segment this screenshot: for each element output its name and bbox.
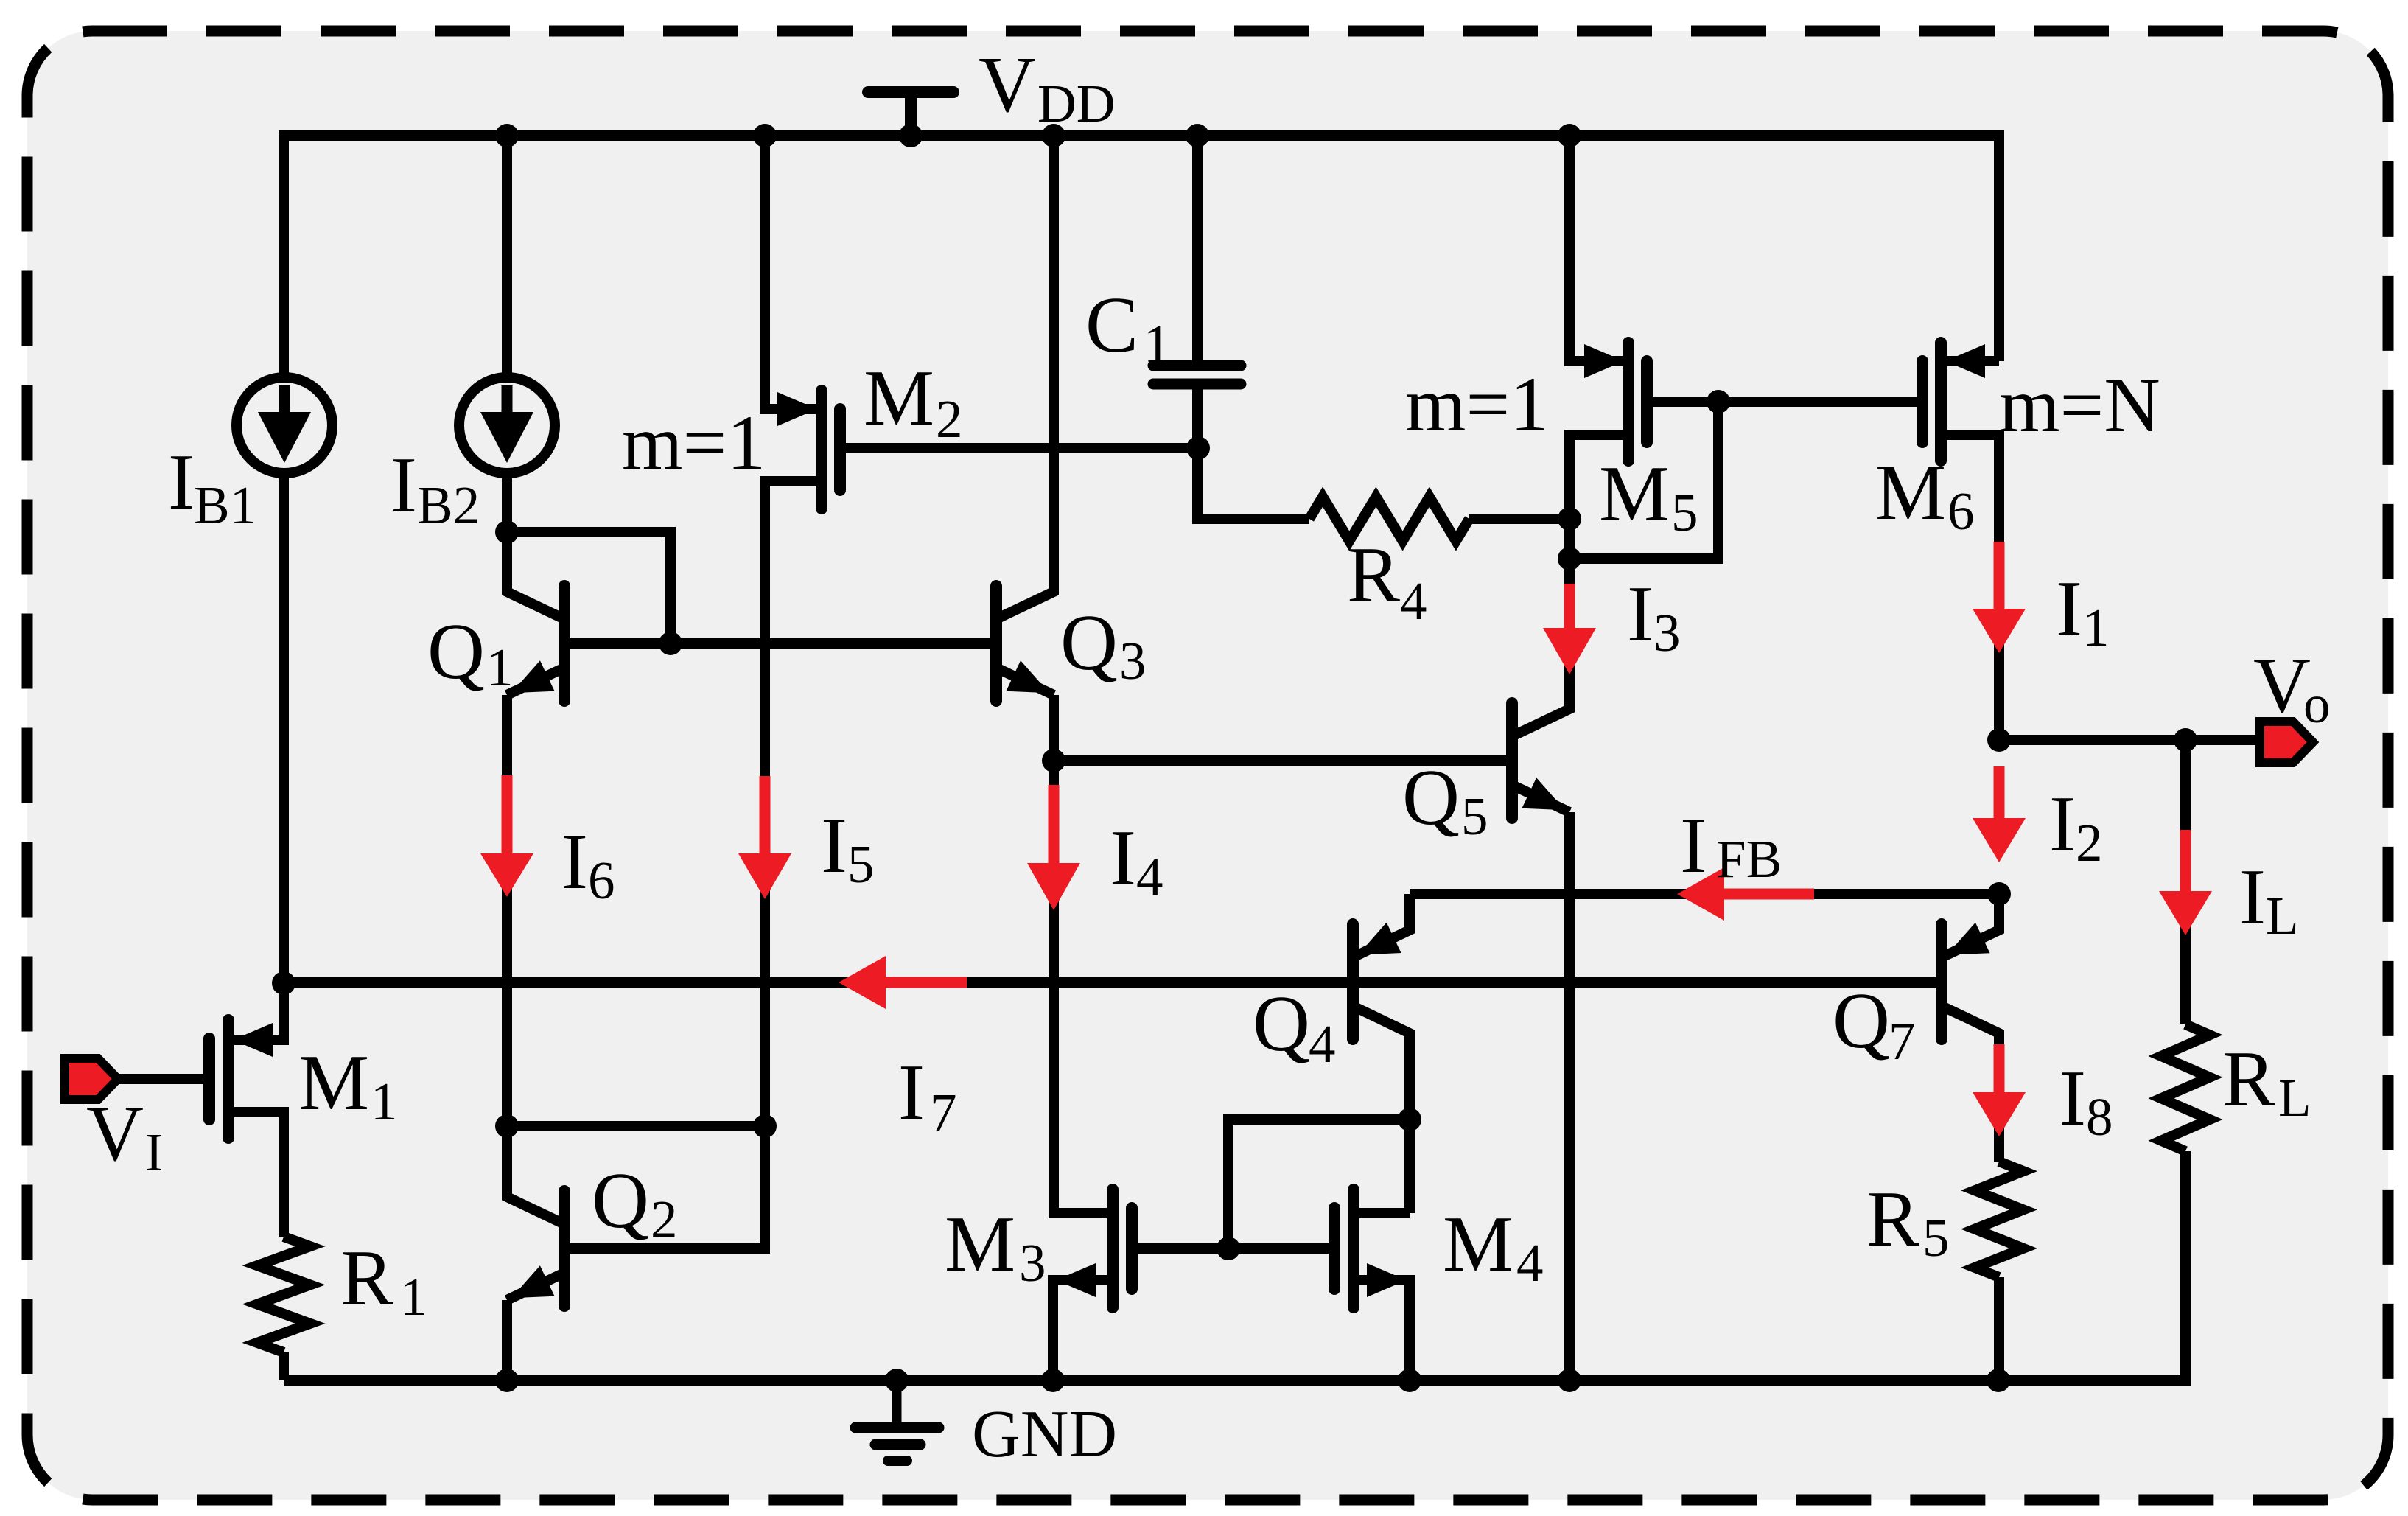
current arrow I8 bbox=[1994, 1044, 2005, 1092]
wire I4 branch to M3 drain bbox=[1054, 761, 1113, 1213]
svg-text:Q: Q bbox=[592, 1157, 649, 1245]
svg-text:V: V bbox=[2253, 642, 2311, 730]
node Q3 emitter junction bbox=[1042, 749, 1065, 772]
wire Q5 emitter to ground bbox=[1564, 812, 1575, 1380]
wire RL to ground bbox=[1998, 1151, 2185, 1380]
transistor Q7 bbox=[1936, 924, 1947, 1039]
svg-text:I: I bbox=[821, 802, 847, 890]
power VDD symbol bbox=[868, 86, 953, 98]
capacitor C1 bbox=[1192, 136, 1203, 366]
svg-text:I: I bbox=[2239, 853, 2266, 941]
node M5 gate-drain tie bbox=[1558, 547, 1581, 570]
current arrow I5 bbox=[760, 776, 771, 853]
transistor M6 bbox=[1941, 356, 1999, 366]
current arrow IL bbox=[2180, 830, 2191, 891]
node Q2 tie left bbox=[495, 1114, 519, 1138]
svg-text:1: 1 bbox=[486, 638, 514, 697]
wire Q2 emitter to ground bbox=[502, 1300, 512, 1380]
svg-text:I: I bbox=[168, 439, 195, 526]
node output Vo junction bbox=[1987, 728, 2011, 752]
transistor Q3 bbox=[990, 586, 1002, 701]
svg-text:I: I bbox=[561, 818, 588, 906]
svg-text:5: 5 bbox=[1461, 786, 1488, 846]
svg-text:2: 2 bbox=[936, 389, 963, 449]
resistor RL bbox=[2161, 1024, 2210, 1151]
svg-text:Q: Q bbox=[1253, 980, 1310, 1068]
svg-text:m=1: m=1 bbox=[1405, 361, 1549, 447]
transistor M2 bbox=[765, 136, 822, 409]
wire IB2 from rail bbox=[502, 136, 512, 377]
wire Q2 collector-base tie bbox=[507, 1121, 765, 1131]
svg-text:R: R bbox=[2222, 1035, 2275, 1123]
wire feedback net I7 bbox=[284, 977, 1942, 988]
current arrow I2 bbox=[1994, 766, 2005, 818]
svg-text:I: I bbox=[898, 1049, 925, 1136]
current arrow IFB bbox=[1724, 889, 1814, 900]
svg-text:5: 5 bbox=[1671, 483, 1698, 542]
wire current mirror tie bbox=[1228, 1119, 1410, 1248]
node IFB junction bbox=[1987, 882, 2011, 906]
svg-text:M: M bbox=[864, 354, 934, 442]
svg-text:1: 1 bbox=[2082, 598, 2110, 657]
svg-text:3: 3 bbox=[1019, 1233, 1046, 1293]
svg-text:R: R bbox=[1866, 1176, 1919, 1263]
resistor R5 bbox=[1975, 1162, 2023, 1277]
node ground rail junction dots bbox=[495, 1369, 519, 1392]
svg-text:I: I bbox=[2049, 780, 2076, 868]
svg-text:m=1: m=1 bbox=[622, 399, 766, 486]
svg-text:GND: GND bbox=[972, 1397, 1117, 1471]
wire output Vo bbox=[1999, 735, 2258, 745]
port Vo output arrow bbox=[2260, 722, 2313, 763]
svg-text:M: M bbox=[1599, 450, 1670, 538]
svg-text:3: 3 bbox=[1119, 631, 1147, 691]
current source IB1 bbox=[237, 377, 332, 473]
current source IB2 bbox=[459, 377, 555, 473]
svg-text:I: I bbox=[145, 1122, 163, 1182]
svg-text:M: M bbox=[1443, 1201, 1513, 1288]
svg-text:7: 7 bbox=[1889, 1011, 1916, 1071]
svg-text:Q: Q bbox=[1402, 754, 1460, 842]
svg-text:R: R bbox=[1347, 531, 1400, 619]
svg-text:I: I bbox=[1680, 802, 1707, 890]
svg-text:L: L bbox=[2266, 886, 2299, 946]
svg-text:1: 1 bbox=[1144, 314, 1171, 374]
wire Q1 base to Q3 base bbox=[564, 638, 996, 649]
wire feedback IFB bbox=[1410, 889, 1999, 899]
transistor Q5 bbox=[1506, 703, 1518, 818]
node Q1 collector-base tie bbox=[495, 520, 519, 544]
node VDD rail junction dots bbox=[495, 124, 519, 147]
svg-text:V: V bbox=[979, 41, 1036, 129]
svg-text:C: C bbox=[1085, 282, 1138, 369]
wire M2 gate bbox=[840, 443, 1198, 453]
svg-text:2: 2 bbox=[651, 1190, 678, 1249]
svg-text:4: 4 bbox=[1400, 571, 1427, 631]
svg-text:7: 7 bbox=[930, 1083, 957, 1142]
wire Q1 base-collector jog bbox=[507, 532, 671, 643]
transistor M4 bbox=[1348, 1190, 1359, 1307]
resistor R1 bbox=[257, 1237, 310, 1352]
wire IB1 to feedback node bbox=[279, 473, 289, 983]
current arrow I1 bbox=[1994, 542, 2005, 609]
svg-text:Q: Q bbox=[427, 608, 485, 696]
svg-text:B1: B1 bbox=[194, 475, 256, 535]
svg-text:R: R bbox=[340, 1234, 393, 1322]
svg-text:I: I bbox=[1110, 814, 1136, 902]
wire M1 gate bbox=[118, 1074, 209, 1084]
current arrow I6 bbox=[502, 775, 513, 853]
svg-text:I: I bbox=[2056, 565, 2082, 653]
svg-text:FB: FB bbox=[1716, 829, 1782, 889]
svg-text:5: 5 bbox=[1922, 1208, 1950, 1268]
svg-text:6: 6 bbox=[588, 850, 615, 910]
wire M5 M6 gates bbox=[1647, 397, 1922, 407]
node Q1 base junction bbox=[659, 632, 682, 655]
wire Q2 base riser bbox=[564, 1126, 765, 1248]
transistor Q4 bbox=[1347, 924, 1359, 1039]
wire R1 to ground rail bbox=[279, 1352, 289, 1380]
svg-text:8: 8 bbox=[2086, 1087, 2113, 1147]
wire M5 diode tie bbox=[1569, 402, 1718, 559]
svg-text:I: I bbox=[391, 441, 417, 529]
node Q4 collector junction bbox=[1398, 1108, 1421, 1131]
svg-text:2: 2 bbox=[2076, 813, 2103, 873]
node R4 junction bbox=[1558, 507, 1581, 531]
svg-text:DD: DD bbox=[1037, 74, 1115, 133]
svg-text:5: 5 bbox=[847, 834, 875, 894]
wire GND bottom rail bbox=[284, 1375, 1998, 1386]
transistor M3 bbox=[1107, 1190, 1119, 1307]
node RL junction bbox=[2174, 728, 2197, 752]
svg-text:6: 6 bbox=[1947, 481, 1975, 541]
svg-text:V: V bbox=[86, 1090, 144, 1178]
svg-text:1: 1 bbox=[371, 1072, 398, 1131]
wire Q1 emitter down (I6 branch) bbox=[502, 695, 512, 1126]
wire Q3 emitter to node bbox=[1049, 695, 1059, 761]
node feedback left junction bbox=[272, 971, 295, 995]
wire Q3 emitter to Q5 base bbox=[1054, 755, 1512, 766]
svg-text:4: 4 bbox=[1516, 1233, 1544, 1293]
port VI input arrow bbox=[65, 1058, 118, 1100]
svg-text:I: I bbox=[1627, 570, 1653, 658]
resistor R4 bbox=[1309, 497, 1469, 541]
wire VDD top rail bbox=[284, 136, 1999, 377]
node mirror gate junction bbox=[1217, 1237, 1240, 1260]
wire IB2 to Q1 collector node bbox=[502, 473, 512, 532]
wire R5 to ground bbox=[1994, 1277, 2004, 1380]
svg-text:M: M bbox=[1875, 449, 1946, 537]
transistor Q2 bbox=[559, 1191, 570, 1306]
transistor Q1 bbox=[559, 586, 570, 701]
svg-text:4: 4 bbox=[1309, 1014, 1336, 1074]
svg-text:B2: B2 bbox=[417, 475, 480, 535]
svg-text:Q: Q bbox=[1833, 977, 1890, 1065]
wire RL from Vo bbox=[2180, 740, 2191, 1024]
wire M3 M4 gates bbox=[1132, 1243, 1334, 1254]
svg-text:L: L bbox=[2278, 1068, 2311, 1128]
node Q2 tie right bbox=[753, 1114, 777, 1138]
transistor M5 bbox=[1569, 136, 1628, 361]
current arrow I7 bbox=[886, 977, 967, 988]
svg-text:Q: Q bbox=[1060, 599, 1118, 687]
svg-text:1: 1 bbox=[400, 1267, 427, 1327]
svg-text:I: I bbox=[2059, 1055, 2086, 1142]
svg-text:m=N: m=N bbox=[1999, 362, 2160, 448]
node C1 bottom junction bbox=[1186, 436, 1210, 460]
ground GND symbol bbox=[892, 1380, 902, 1425]
wire R4 to M5 drain bbox=[1469, 514, 1569, 524]
svg-text:M: M bbox=[298, 1039, 369, 1127]
current arrow I4 bbox=[1049, 785, 1060, 863]
svg-text:o: o bbox=[2303, 674, 2331, 734]
transistor M1 bbox=[228, 983, 284, 1040]
wire C1 to R4 bbox=[1197, 448, 1309, 519]
node M5 gate junction bbox=[1707, 390, 1730, 413]
current arrow I3 bbox=[1564, 584, 1575, 628]
svg-text:M: M bbox=[945, 1201, 1015, 1288]
svg-text:3: 3 bbox=[1653, 603, 1681, 663]
svg-text:4: 4 bbox=[1136, 847, 1163, 907]
